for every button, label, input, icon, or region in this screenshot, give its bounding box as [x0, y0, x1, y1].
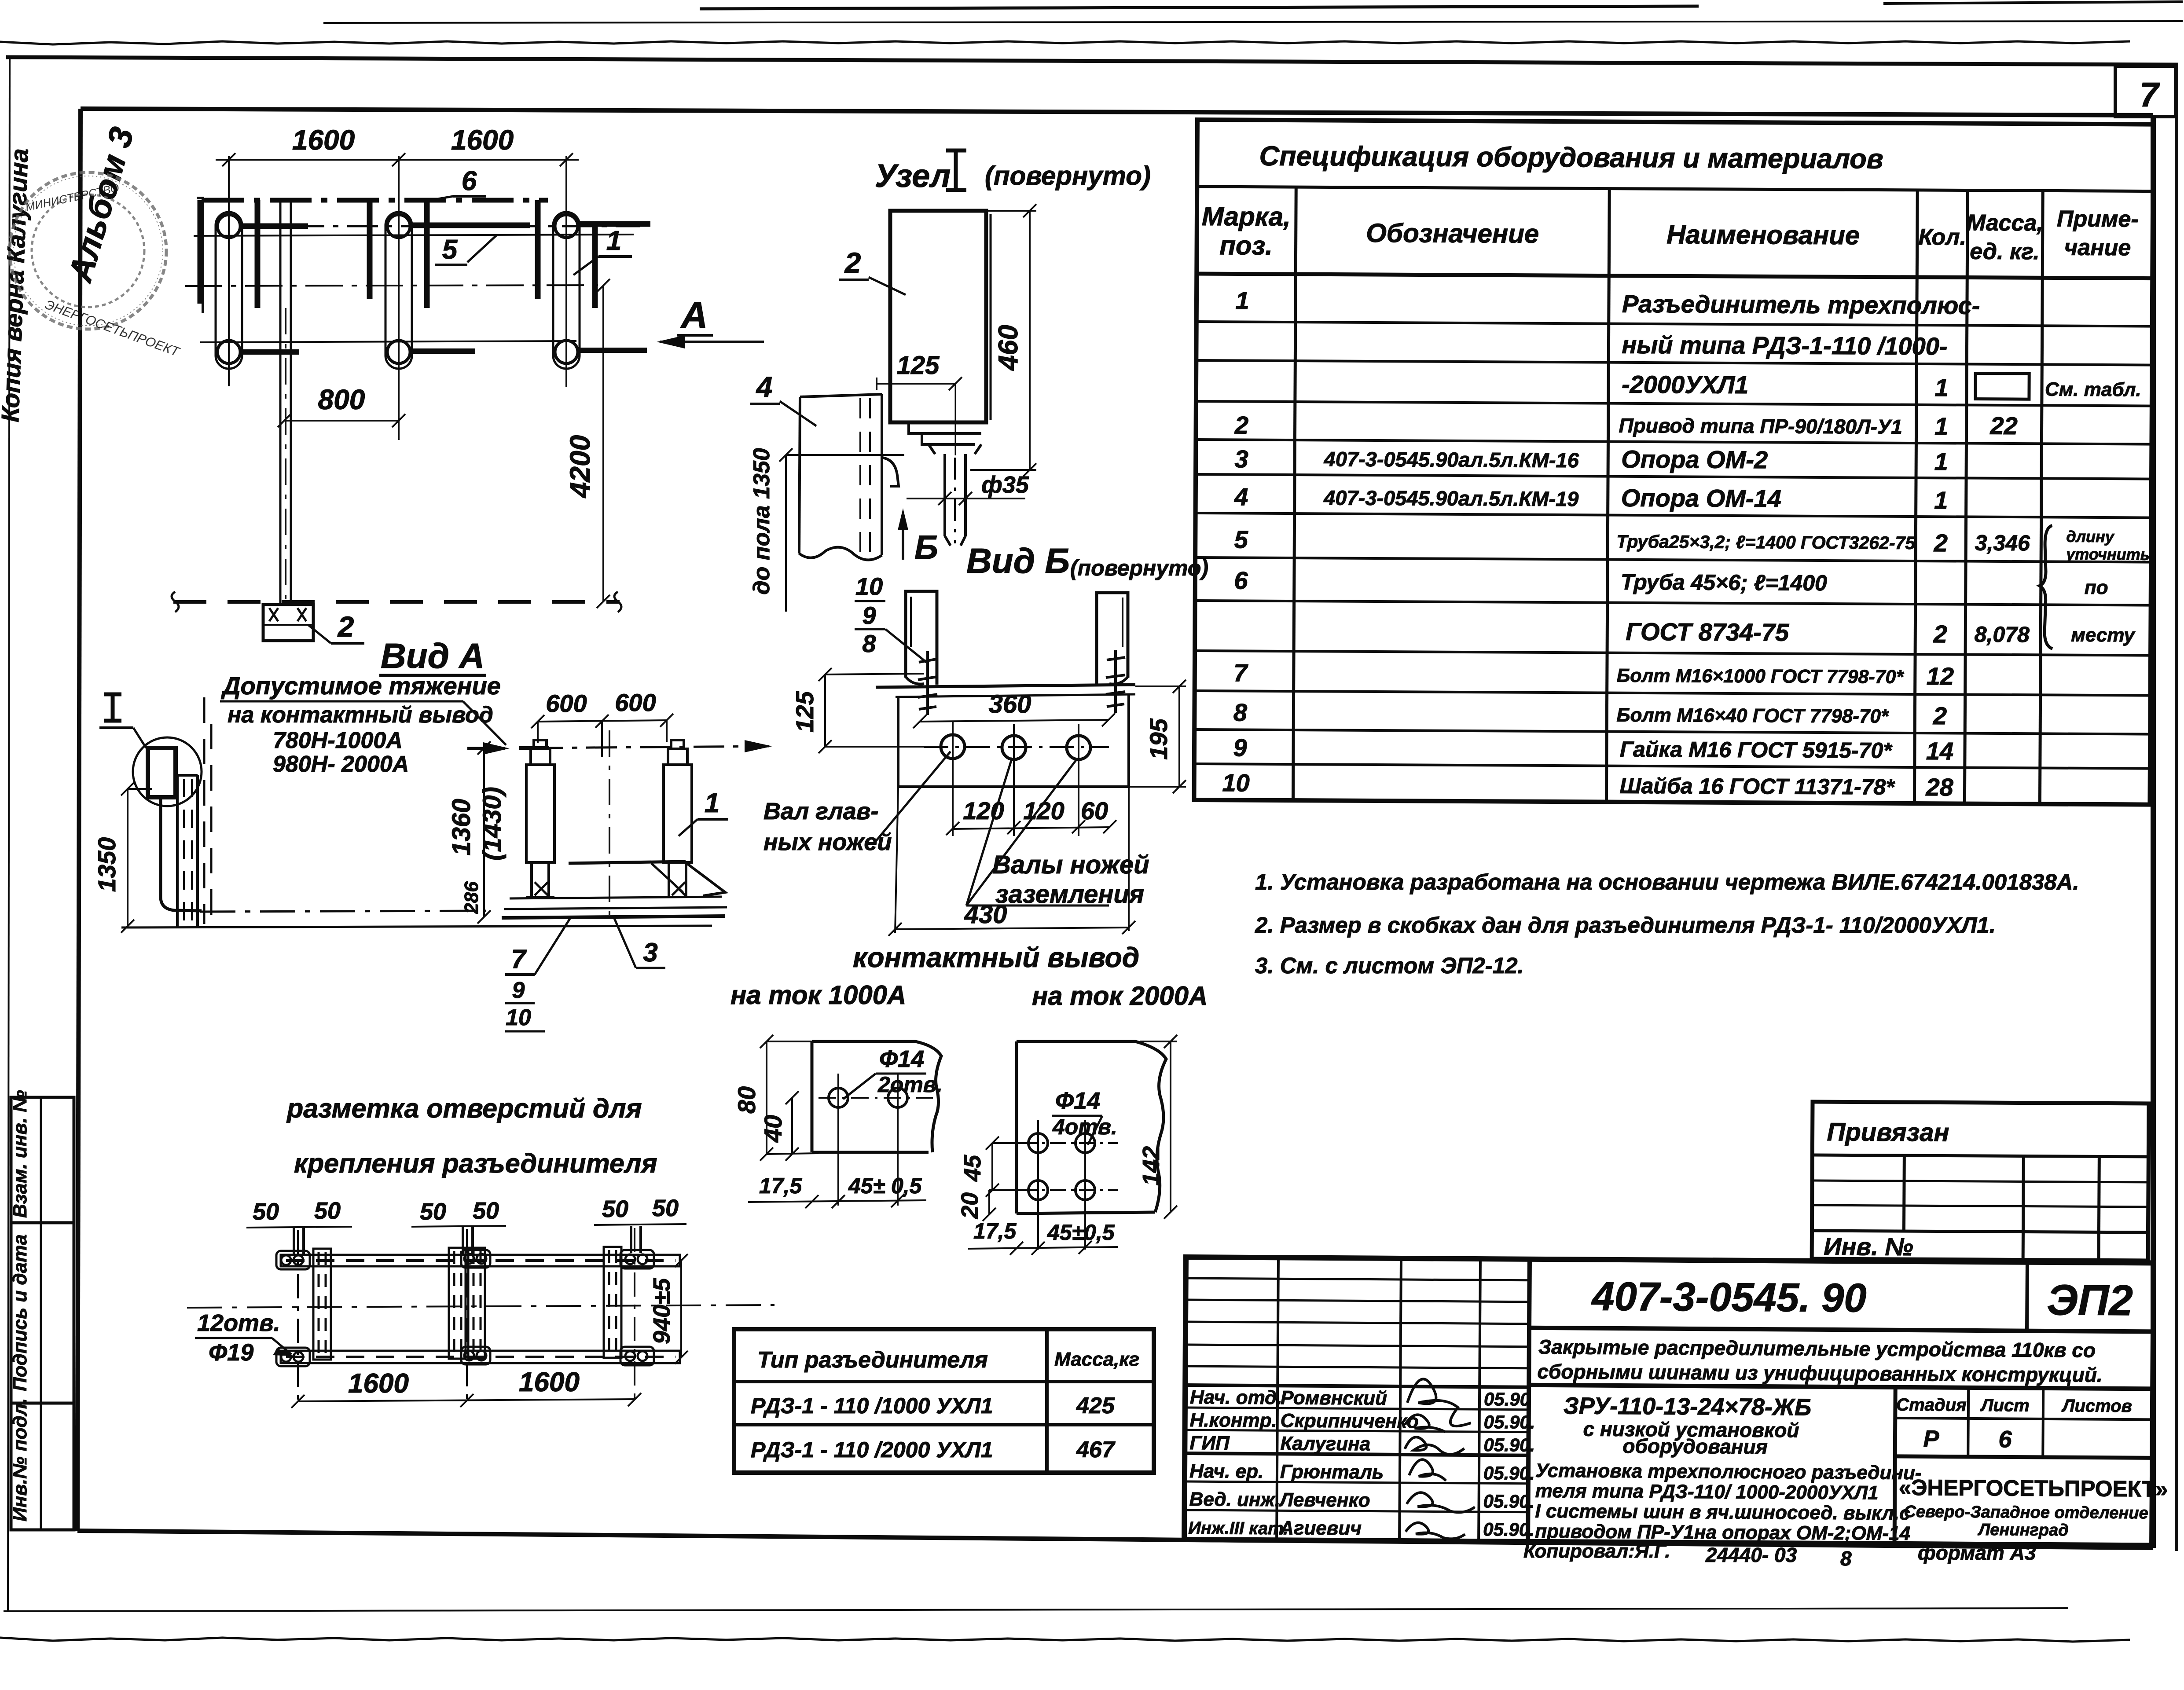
- svg-text:2: 2: [1933, 702, 1947, 730]
- heavy bottom stub bars: [241, 350, 647, 352]
- dim 142: [1170, 1041, 1171, 1212]
- svg-text:Валы ножей: Валы ножей: [992, 850, 1149, 879]
- svg-text:чание: чание: [2064, 235, 2131, 261]
- svg-text:Копия верна Калугина: Копия верна Калугина: [0, 148, 33, 422]
- svg-text:Лист: Лист: [1980, 1396, 2030, 1415]
- svg-text:20: 20: [957, 1192, 983, 1219]
- busbar 5 heavy segments: [241, 224, 650, 226]
- svg-text:600: 600: [615, 689, 656, 716]
- svg-text:длину: длину: [2066, 528, 2115, 546]
- anchor studs: [918, 650, 1125, 715]
- svg-text:1: 1: [705, 788, 719, 818]
- top scan streak 2: [323, 21, 2183, 23]
- shaft circles: [941, 735, 1090, 759]
- drive box: [263, 605, 313, 641]
- svg-text:1350: 1350: [93, 837, 121, 892]
- svg-text:3,346: 3,346: [1975, 531, 2031, 556]
- anchor cross marks: [535, 882, 685, 895]
- svg-text:50: 50: [420, 1199, 446, 1225]
- support OM-14 bracket: [799, 394, 882, 560]
- svg-text:10: 10: [1222, 769, 1250, 796]
- svg-text:2. Размер в скобках дан для: 2. Размер в скобках дан для разъединител…: [1255, 913, 1996, 938]
- svg-text:Листов: Листов: [2061, 1396, 2132, 1416]
- dim 195 right: [1178, 686, 1180, 787]
- svg-text:Ф14: Ф14: [879, 1046, 924, 1072]
- svg-text:3: 3: [1235, 445, 1248, 473]
- svg-text:9: 9: [1233, 733, 1247, 761]
- svg-text:430: 430: [964, 900, 1007, 929]
- svg-text:Н.контр.: Н.контр.: [1190, 1409, 1277, 1431]
- svg-text:Опора ОМ-2: Опора ОМ-2: [1621, 445, 1768, 474]
- svg-text:Б: Б: [914, 529, 938, 566]
- svg-text:50: 50: [652, 1195, 679, 1221]
- svg-text:Масса,кг: Масса,кг: [1054, 1349, 1139, 1370]
- outer right border: [2175, 65, 2178, 1551]
- svg-text:2: 2: [1234, 411, 1248, 439]
- svg-text:Привод типа ПР-90/180Л-У1: Привод типа ПР-90/180Л-У1: [1619, 414, 1902, 438]
- dimension 800: [284, 420, 399, 422]
- f35 dim: [907, 498, 1025, 499]
- thin rail line lower: [200, 341, 576, 342]
- svg-text:Гайка М16 ГОСТ 5915-70*: Гайка М16 ГОСТ 5915-70*: [1620, 737, 1893, 763]
- svg-text:1600: 1600: [348, 1368, 409, 1399]
- svg-text:Тип разъединителя: Тип разъединителя: [757, 1347, 988, 1373]
- svg-text:9: 9: [512, 978, 525, 1003]
- svg-text:контактный вывод: контактный вывод: [853, 942, 1139, 973]
- mast inner dashed lines: [184, 779, 192, 924]
- LEFT MARGIN BOXES: [11, 1097, 74, 1530]
- svg-text:См. табл.: См. табл.: [2045, 378, 2141, 400]
- svg-text:2отв.: 2отв.: [877, 1072, 943, 1097]
- NOTES: [1255, 869, 2079, 978]
- insulator stack right: [664, 740, 692, 898]
- svg-text:РДЗ-1 - 110 /2000 УХЛ1: РДЗ-1 - 110 /2000 УХЛ1: [751, 1437, 993, 1462]
- svg-text:Ромвнский: Ромвнский: [1281, 1387, 1387, 1409]
- svg-text:Инв. №: Инв. №: [1824, 1232, 1913, 1261]
- HOLE DETAIL 4otv: [957, 1035, 1177, 1255]
- svg-text:940±5: 940±5: [649, 1278, 675, 1344]
- svg-text:формат А3: формат А3: [1918, 1541, 2036, 1564]
- dim 940±5: [680, 1261, 682, 1357]
- svg-text:-2000УХЛ1: -2000УХЛ1: [1622, 370, 1748, 399]
- svg-text:Взам. инв. №: Взам. инв. №: [9, 1090, 31, 1218]
- svg-text:Грюнталь: Грюнталь: [1280, 1461, 1384, 1483]
- svg-text:600: 600: [546, 689, 587, 717]
- svg-text:05.90.: 05.90.: [1483, 1463, 1535, 1484]
- svg-text:ф35: ф35: [981, 472, 1029, 498]
- svg-text:1360: 1360: [447, 799, 476, 855]
- svg-text:(1430): (1430): [478, 787, 507, 861]
- corner bolt fittings: [276, 1250, 654, 1366]
- svg-text:Разъединитель трехполюс-: Разъединитель трехполюс-: [1622, 290, 1980, 319]
- svg-text:Болт М16×1000 ГОСТ 7798-70*: Болт М16×1000 ГОСТ 7798-70*: [1617, 665, 1905, 688]
- svg-text:Спецификация оборудования: Спецификация оборудования и материалов: [1259, 141, 1883, 175]
- svg-text:Стадия: Стадия: [1896, 1395, 1967, 1415]
- top plate band: [876, 685, 1135, 687]
- dim 1350: [127, 789, 128, 926]
- dim 45 / 20: [991, 1143, 993, 1190]
- svg-text:Подпись и дата: Подпись и дата: [9, 1234, 31, 1391]
- svg-text:сборными шинами из унифициров: сборными шинами из унифицированных конст…: [1537, 1360, 2103, 1386]
- dim 125: [877, 383, 955, 385]
- curly brace rows 5-9 note: [2039, 525, 2053, 649]
- TIP TABLE: [734, 1329, 1154, 1473]
- svg-text:месту: месту: [2071, 624, 2136, 646]
- connection plate to drive: [882, 458, 899, 486]
- svg-text:4200: 4200: [564, 435, 596, 499]
- svg-text:4отв.: 4отв.: [1052, 1114, 1117, 1139]
- centre line: [187, 1305, 774, 1308]
- left C-channel: [906, 591, 937, 685]
- svg-text:800: 800: [318, 384, 365, 415]
- svg-text:Обозначение: Обозначение: [1366, 218, 1539, 249]
- dim 1360 (1430): [483, 748, 485, 917]
- left corner bracket: [197, 198, 203, 313]
- svg-text:Труба 45×6; ℓ=1400: Труба 45×6; ℓ=1400: [1621, 570, 1827, 595]
- svg-text:Наименование: Наименование: [1666, 220, 1860, 250]
- svg-text:Шайба 16 ГОСТ 11371-78*: Шайба 16 ГОСТ 11371-78*: [1619, 774, 1895, 799]
- middle centreline: [609, 730, 610, 922]
- svg-text:14: 14: [1926, 737, 1954, 765]
- svg-text:Нач. ер.: Нач. ер.: [1189, 1460, 1264, 1482]
- svg-text:ЗРУ-110-13-24×78-ЖБ: ЗРУ-110-13-24×78-ЖБ: [1564, 1393, 1812, 1420]
- svg-text:2: 2: [1934, 529, 1948, 557]
- svg-text:(повернуто): (повернуто): [985, 161, 1151, 191]
- svg-text:467: 467: [1076, 1437, 1116, 1463]
- svg-text:5: 5: [1234, 525, 1248, 553]
- svg-text:Альбом 3: Альбом 3: [61, 123, 141, 287]
- SPEC TABLE: [1194, 120, 2153, 805]
- svg-text:Закрытые распредилительные ус: Закрытые распредилительные устройства 11…: [1538, 1335, 2096, 1362]
- svg-text:РДЗ-1 - 110 /1000 УХЛ1: РДЗ-1 - 110 /1000 УХЛ1: [751, 1393, 993, 1418]
- thin rail line under busbars: [194, 235, 634, 236]
- svg-text:на ток 2000А: на ток 2000А: [1032, 981, 1208, 1011]
- base frame: [502, 861, 727, 918]
- svg-text:1: 1: [606, 226, 621, 256]
- main box: [898, 695, 1129, 787]
- dim 80: [766, 1041, 767, 1154]
- svg-text:12: 12: [1927, 662, 1954, 690]
- vertical centre lines: [298, 1228, 635, 1404]
- svg-text:Инж.III кат.: Инж.III кат.: [1188, 1518, 1288, 1538]
- svg-text:6: 6: [1234, 566, 1248, 594]
- svg-text:1600: 1600: [519, 1367, 580, 1397]
- insulator stack left: [526, 740, 554, 898]
- svg-text:6: 6: [462, 166, 477, 196]
- busbar 5 chain line: [240, 225, 640, 227]
- svg-text:Масса,: Масса,: [1967, 210, 2043, 236]
- svg-text:12отв.: 12отв.: [197, 1310, 280, 1336]
- svg-text:ГИП: ГИП: [1189, 1432, 1230, 1454]
- signatures squiggles: [1404, 1379, 1476, 1539]
- svg-text:5: 5: [442, 235, 458, 265]
- svg-text:(повернуто): (повернуто): [1070, 556, 1208, 580]
- svg-text:28: 28: [1925, 773, 1953, 801]
- svg-text:Скрипниченко: Скрипниченко: [1281, 1410, 1419, 1432]
- svg-text:Копировал:Я.Г.: Копировал:Я.Г.: [1523, 1540, 1670, 1562]
- svg-text:9: 9: [862, 601, 876, 629]
- pole 3 outline: [553, 212, 580, 369]
- dim 40: [791, 1098, 793, 1154]
- top scan streak 1: [700, 6, 1699, 9]
- svg-text:142: 142: [1138, 1146, 1164, 1186]
- svg-text:8: 8: [862, 630, 876, 657]
- dim 460: [1029, 211, 1031, 470]
- svg-text:Инв.№ подл.: Инв.№ подл.: [9, 1398, 31, 1521]
- VID A VIEW: [93, 636, 772, 1031]
- right part: [1529, 1328, 2153, 1332]
- stud pins: [294, 1226, 641, 1255]
- svg-text:45±0,5: 45±0,5: [1047, 1220, 1115, 1245]
- RAZMETKA DRAWING: [187, 1195, 774, 1408]
- svg-text:уточнить: уточнить: [2065, 545, 2150, 564]
- svg-text:05.90.: 05.90.: [1483, 1519, 1534, 1540]
- top rail: [281, 1255, 680, 1266]
- VID B DRAWING: [730, 572, 1208, 1011]
- svg-text:50: 50: [253, 1199, 279, 1225]
- svg-text:Ленинград: Ленинград: [1977, 1521, 2069, 1540]
- earthing rod inside: [161, 797, 202, 911]
- page number box 7: [2115, 66, 2176, 117]
- svg-text:8: 8: [1840, 1547, 1852, 1570]
- dim 125 left: [824, 675, 826, 747]
- svg-text:Вид А: Вид А: [381, 636, 485, 675]
- svg-text:Агиевич: Агиевич: [1279, 1517, 1362, 1539]
- svg-text:Левченко: Левченко: [1278, 1489, 1370, 1511]
- right diagonal stop: [684, 861, 725, 896]
- svg-text:1600: 1600: [451, 124, 514, 156]
- shaft f35: [945, 454, 965, 546]
- svg-text:ед. кг.: ед. кг.: [1970, 239, 2040, 265]
- svg-text:ЭНЕРГОСЕТЬПРОЕКТ: ЭНЕРГОСЕТЬПРОЕКТ: [43, 297, 182, 360]
- svg-text:Узел: Узел: [875, 158, 951, 194]
- svg-text:2: 2: [844, 246, 861, 279]
- svg-text:22: 22: [1989, 412, 2018, 440]
- svg-text:на ток 1000А: на ток 1000А: [730, 980, 906, 1010]
- svg-text:10: 10: [855, 572, 883, 600]
- svg-text:ГОСТ 8734-75: ГОСТ 8734-75: [1626, 618, 1789, 646]
- TITLE BLOCK: [1184, 1257, 2169, 1546]
- svg-text:10: 10: [506, 1005, 531, 1030]
- svg-text:ных ножей: ных ножей: [763, 829, 892, 855]
- 50 50 dims: [253, 1195, 679, 1225]
- svg-text:7: 7: [1233, 659, 1248, 686]
- svg-text:1: 1: [1934, 374, 1948, 401]
- svg-text:1. Установка разработана на: 1. Установка разработана на основании че…: [1255, 869, 2079, 894]
- left signature grid horizontals: [1186, 1278, 1530, 1280]
- column centre lines: [229, 156, 566, 440]
- busbar 6 chain line: [202, 198, 548, 203]
- horizontal centre line: [185, 285, 606, 286]
- svg-text:360: 360: [989, 690, 1031, 719]
- svg-text:195: 195: [1145, 718, 1172, 759]
- heavy vertical earth-blade bars: [200, 200, 595, 308]
- svg-text:980Н- 2000А: 980Н- 2000А: [273, 752, 409, 777]
- svg-text:по: по: [2085, 577, 2108, 598]
- svg-text:05.90: 05.90: [1484, 1389, 1530, 1410]
- svg-text:1: 1: [1934, 486, 1948, 514]
- svg-text:7: 7: [2140, 75, 2160, 114]
- svg-text:8,078: 8,078: [1975, 622, 2030, 647]
- svg-text:45± 0,5: 45± 0,5: [848, 1173, 922, 1198]
- svg-text:8: 8: [1233, 698, 1248, 726]
- svg-text:Приме-: Приме-: [2057, 206, 2139, 232]
- below title block: [1523, 1540, 2036, 1570]
- svg-text:45: 45: [959, 1155, 986, 1182]
- left verticals: [1277, 1257, 1278, 1540]
- svg-text:Болт М16×40 ГОСТ 7798-70*: Болт М16×40 ГОСТ 7798-70*: [1616, 704, 1889, 727]
- svg-text:780Н-1000А: 780Н-1000А: [273, 728, 403, 753]
- svg-text:286: 286: [461, 881, 482, 914]
- svg-text:А: А: [680, 294, 708, 336]
- svg-text:теля типа РДЗ-110/ 1000-2000У: теля типа РДЗ-110/ 1000-2000УХЛ1: [1535, 1480, 1879, 1504]
- left margin handwriting: [0, 123, 141, 423]
- right C-channel: [1097, 593, 1128, 685]
- svg-text:крепления разъединителя: крепления разъединителя: [294, 1148, 657, 1178]
- svg-text:Северо-Западное отделение: Северо-Западное отделение: [1904, 1503, 2148, 1522]
- drive body (privod PR-90): [890, 211, 986, 422]
- dimension line 1600+1600: [216, 153, 579, 166]
- svg-text:4: 4: [756, 370, 773, 403]
- top reference arrow: [532, 746, 769, 748]
- svg-text:1600: 1600: [292, 124, 355, 156]
- svg-text:Труба25×3,2; ℓ=1400 ГОСТ3262-7: Труба25×3,2; ℓ=1400 ГОСТ3262-75: [1616, 532, 1916, 553]
- svg-text:2: 2: [337, 610, 354, 643]
- pole 1 outline: [216, 212, 242, 369]
- channel uprights: [313, 1247, 621, 1360]
- bottom wavy scan edge: [0, 1638, 2130, 1642]
- svg-text:17,5: 17,5: [759, 1173, 803, 1198]
- mass placeholder box row 3: [1975, 374, 2029, 400]
- svg-text:Кол.: Кол.: [1918, 224, 1966, 250]
- svg-text:заземления: заземления: [995, 880, 1144, 909]
- pole 2 outline: [385, 212, 412, 369]
- svg-text:407-3-0545.90ал.5л.КМ-16: 407-3-0545.90ал.5л.КМ-16: [1324, 447, 1579, 472]
- svg-text:Вид Б: Вид Б: [966, 541, 1070, 580]
- dim 600 600: [538, 720, 667, 722]
- svg-text:40: 40: [759, 1115, 787, 1143]
- svg-text:125: 125: [897, 351, 940, 380]
- svg-text:17,5: 17,5: [973, 1219, 1017, 1243]
- svg-text:425: 425: [1076, 1393, 1115, 1419]
- B arrow: [902, 517, 904, 560]
- svg-text:50: 50: [602, 1196, 628, 1222]
- top wavy scan edge: [0, 41, 2130, 44]
- svg-text:Опора ОМ-14: Опора ОМ-14: [1621, 484, 1781, 513]
- UZEL I DETAIL: [749, 150, 1151, 612]
- svg-text:3. См. с листом ЭП2-12.: 3. См. с листом ЭП2-12.: [1255, 953, 1524, 978]
- svg-text:05.90.: 05.90.: [1483, 1491, 1534, 1512]
- svg-text:460: 460: [993, 325, 1024, 371]
- svg-text:Ф19: Ф19: [209, 1339, 253, 1366]
- svg-text:2: 2: [1933, 620, 1947, 648]
- bottom thin rule: [4, 1608, 2068, 1611]
- svg-text:407-3-0545. 90: 407-3-0545. 90: [1591, 1274, 1867, 1321]
- svg-text:Вед. инж.: Вед. инж.: [1189, 1488, 1280, 1510]
- svg-text:Калугина: Калугина: [1280, 1433, 1370, 1455]
- svg-text:Привязан: Привязан: [1827, 1118, 1949, 1147]
- PRIVYAZAN BLOCK: [1812, 1102, 2149, 1262]
- dashed guides: [203, 697, 206, 924]
- svg-text:4: 4: [1234, 483, 1248, 510]
- svg-text:1: 1: [1934, 447, 1948, 475]
- svg-text:разметка отверстий для: разметка отверстий для: [286, 1093, 642, 1123]
- svg-text:Нач. отд.: Нач. отд.: [1190, 1386, 1282, 1408]
- svg-text:Допустимое тяжение: Допустимое тяжение: [221, 672, 501, 700]
- detail I mark: [104, 694, 121, 721]
- floor dashed line: [173, 600, 620, 604]
- svg-text:на контактный вывод: на контактный вывод: [228, 702, 493, 728]
- svg-text:Р: Р: [1923, 1426, 1939, 1452]
- bottom rail: [281, 1351, 680, 1363]
- PLAN VIEW (top-left): [172, 124, 764, 643]
- svg-text:24440- 03: 24440- 03: [1705, 1543, 1797, 1566]
- svg-text:ный типа РДЗ-1-110 /1000-: ный типа РДЗ-1-110 /1000-: [1622, 331, 1947, 360]
- detail circle: [133, 737, 202, 806]
- outer top border: [6, 57, 2178, 65]
- dimension 4200: [602, 286, 604, 601]
- svg-text:6: 6: [1998, 1426, 2012, 1452]
- svg-text:407-3-0545.90ал.5л.КМ-19: 407-3-0545.90ал.5л.КМ-19: [1323, 486, 1578, 510]
- svg-text:50: 50: [473, 1198, 499, 1224]
- svg-text:поз.: поз.: [1219, 231, 1273, 260]
- floor line: [121, 926, 712, 927]
- outer left edge: [8, 57, 10, 1610]
- svg-text:7: 7: [511, 944, 527, 974]
- centre dash-dot line: [200, 911, 486, 912]
- svg-text:Ф14: Ф14: [1055, 1088, 1100, 1114]
- HOLE DETAIL 2otv: [733, 1035, 943, 1208]
- svg-text:Марка,: Марка,: [1202, 202, 1291, 231]
- svg-text:Вал глав-: Вал глав-: [763, 798, 878, 825]
- svg-text:05.90.: 05.90.: [1484, 1411, 1535, 1433]
- svg-text:05.90.: 05.90.: [1483, 1434, 1535, 1455]
- neck steps: [909, 422, 981, 454]
- svg-text:50: 50: [314, 1198, 341, 1224]
- round stamp: [10, 172, 166, 329]
- svg-text:1: 1: [1235, 286, 1249, 314]
- svg-text:оборудования: оборудования: [1622, 1434, 1768, 1458]
- svg-text:80: 80: [733, 1086, 760, 1114]
- svg-text:125: 125: [791, 691, 819, 732]
- svg-text:ЭП2: ЭП2: [2047, 1276, 2133, 1324]
- left mast channel: [177, 775, 198, 927]
- svg-text:1: 1: [1934, 412, 1948, 440]
- svg-text:до пола 1350: до пола 1350: [749, 448, 774, 594]
- drive rod: [280, 200, 291, 605]
- svg-text:3: 3: [643, 938, 657, 967]
- svg-text:«ЭНЕРГОСЕТЬПРОЕКТ»: «ЭНЕРГОСЕТЬПРОЕКТ»: [1899, 1475, 2168, 1502]
